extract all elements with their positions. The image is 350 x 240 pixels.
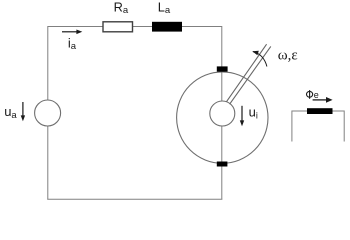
resistor Ra	[103, 22, 133, 32]
arrow ua	[21, 102, 25, 121]
arrow ui	[240, 106, 244, 127]
brush bottom	[217, 162, 228, 167]
motor rotor circle	[210, 101, 235, 126]
svg-text:ω,ε: ω,ε	[278, 47, 298, 63]
wire left vertical upper	[47, 26, 49, 100]
wire field right vertical	[343, 111, 345, 142]
wire inside motor from rotor to bottom brush	[221, 126, 223, 162]
wire between Ra and La	[133, 26, 153, 28]
wire field left vertical	[291, 111, 293, 142]
wire inside motor from top brush to rotor	[221, 72, 223, 102]
voltage source ua	[35, 100, 61, 126]
wire top-right vertical down to top brush	[221, 26, 223, 67]
shaft line lower	[230, 46, 271, 104]
wire top-left horizontal	[48, 26, 104, 28]
arrow phi e	[313, 97, 333, 103]
wire left vertical lower	[47, 126, 49, 200]
motor stator circle	[177, 72, 268, 163]
current arrow ia	[62, 30, 82, 35]
shaft line upper	[226, 44, 266, 102]
wire top-right horizontal	[182, 26, 222, 28]
wire bottom horizontal	[47, 198, 222, 200]
field winding	[307, 108, 333, 114]
inductor La	[152, 22, 182, 32]
wire field right horizontal	[333, 110, 345, 112]
brush top	[217, 66, 228, 71]
wire bottom-right vertical up to bottom brush	[221, 166, 223, 200]
svg-text:e: e	[314, 90, 319, 100]
rotation arc arrow	[252, 51, 267, 67]
label phi e	[307, 90, 319, 100]
wire field left horizontal	[292, 110, 307, 112]
